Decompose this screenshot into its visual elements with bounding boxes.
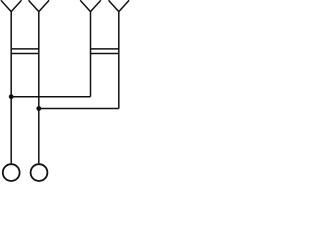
node N1 junction dot [9, 94, 14, 99]
wire A4 stem [118, 12, 120, 109]
antenna A3 [80, 0, 101, 11]
antenna A2 [29, 0, 50, 11]
wire A2 stem [38, 12, 40, 164]
transmission line TL2 upper bar [91, 48, 119, 50]
wire A3 stem [90, 12, 92, 97]
transmission line TL2 lower bar [91, 53, 119, 55]
antenna A1 [1, 0, 22, 11]
transmission line TL1 lower bar [11, 53, 39, 55]
port P2 [31, 164, 48, 181]
antenna A4 [109, 0, 130, 11]
node N2 junction dot [36, 106, 41, 111]
wire from A3 to node N1 [11, 96, 90, 98]
transmission line TL1 upper bar [11, 48, 39, 50]
wire from A4 to node N2 [39, 108, 119, 110]
wire A1 stem [10, 12, 12, 164]
port P1 [3, 164, 20, 181]
